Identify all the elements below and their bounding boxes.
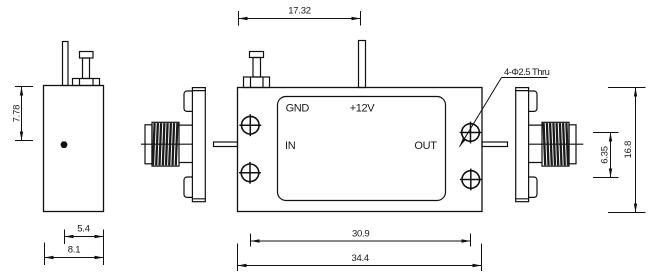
dimension 5.4 <box>65 230 104 266</box>
connector centerline <box>141 143 192 145</box>
side view body <box>44 86 104 212</box>
svg-text:7.78: 7.78 <box>11 105 22 123</box>
svg-text:OUT: OUT <box>414 140 437 152</box>
svg-text:16.8: 16.8 <box>623 141 634 159</box>
input SMA connector J1 <box>141 88 205 202</box>
connector interface ring <box>145 125 152 164</box>
screw bottom-right <box>460 169 482 191</box>
connector centerline <box>529 143 584 145</box>
svg-text:17.32: 17.32 <box>288 5 311 16</box>
dimension 8.1 <box>45 243 104 266</box>
main view feedthrough stem <box>253 58 261 78</box>
connector barrel <box>529 125 542 162</box>
side view pin P1 <box>63 42 69 86</box>
flange bottom tab <box>528 177 537 197</box>
nut knurl threads <box>544 123 568 165</box>
side view feedthrough base inner lines <box>80 79 94 86</box>
screw bottom-left <box>239 162 261 184</box>
side view feedthrough cap <box>80 52 94 59</box>
main view pin P2 <box>359 41 366 88</box>
svg-text:GND: GND <box>286 103 310 115</box>
input pin bar <box>214 142 238 147</box>
flange plate <box>192 88 205 202</box>
dimension 17.32 <box>239 11 361 26</box>
flange plate <box>516 88 529 202</box>
coupling nut <box>542 122 569 166</box>
main view feedthrough base <box>244 77 270 88</box>
svg-text:34.4: 34.4 <box>351 253 369 264</box>
svg-text:6.35: 6.35 <box>600 146 611 164</box>
connector interface ring <box>569 125 576 164</box>
dimension 7.78 <box>15 87 33 141</box>
cover plate rounded rectangle <box>278 97 446 201</box>
dimension 16.8 <box>608 88 646 213</box>
side view feedthrough base <box>73 79 100 86</box>
flange top tab <box>184 91 193 111</box>
svg-text:5.4: 5.4 <box>77 223 89 234</box>
dimension 6.35 <box>593 133 619 178</box>
output pin bar <box>482 142 508 147</box>
flange cap lines <box>516 91 529 199</box>
svg-text:8.1: 8.1 <box>68 244 80 255</box>
main view feedthrough base inner lines <box>251 77 264 88</box>
svg-text:30.9: 30.9 <box>352 229 370 240</box>
dimension 34.4 <box>238 244 482 272</box>
flange cap lines <box>192 91 205 199</box>
svg-text:+12V: +12V <box>350 103 376 115</box>
screw top-left <box>239 114 261 136</box>
callout 4-phi2.5 Thru leader <box>460 78 548 147</box>
main body <box>238 88 483 212</box>
connector barrel <box>179 125 192 162</box>
output SMA connector J2 (mirrored) <box>516 88 584 202</box>
nut knurl threads <box>153 123 177 165</box>
side view center dot <box>61 141 68 148</box>
flange top tab <box>528 91 537 111</box>
dimension 30.9 <box>251 234 471 247</box>
svg-text:4-Φ2.5 Thru: 4-Φ2.5 Thru <box>504 67 550 78</box>
screw top-right <box>460 122 482 144</box>
side view feedthrough stem <box>83 58 90 79</box>
flange bottom tab <box>184 177 193 197</box>
main view feedthrough cap <box>250 52 264 58</box>
svg-text:IN: IN <box>285 140 296 152</box>
coupling nut <box>152 122 179 166</box>
